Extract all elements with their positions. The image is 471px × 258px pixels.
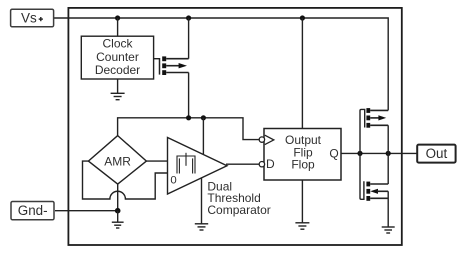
wire AMR bottom to ground node (117, 184, 119, 211)
wire comparator supply (202, 118, 204, 154)
svg-text:Q: Q (329, 147, 338, 161)
block Output Flip Flop (259, 129, 341, 181)
drain lead (top) (166, 58, 188, 60)
source lead (bottom) (370, 197, 388, 199)
ground below clock box (111, 79, 125, 100)
junction dot Q/gate bus (357, 151, 362, 156)
gate lead down from Q bus (360, 153, 364, 199)
source lead (bottom) (166, 72, 188, 74)
wire flip-flop supply from rail (301, 18, 303, 129)
svg-text:AMR: AMR (104, 154, 131, 168)
channel segments (366, 108, 370, 128)
junction dot rail/clock box (115, 15, 120, 20)
wire M1 drain to rail (188, 18, 190, 59)
sensor bridge AMR (diamond) (88, 136, 146, 185)
svg-text:Clock: Clock (102, 37, 133, 51)
terminal box Vs+ (11, 9, 54, 27)
wire M3 source/body to ground (387, 191, 389, 227)
wire flip-flop to ground (301, 180, 303, 223)
junction dot internal rail/comparator supply (201, 115, 206, 120)
gate lead from clock box (154, 58, 160, 60)
svg-text:Out: Out (426, 146, 448, 161)
body arrow (middle) (166, 65, 180, 67)
dual-threshold glyph inside comparator (177, 153, 195, 174)
wire M1 source down to internal rail (188, 73, 190, 118)
wire Gnd- to bridge ground node (55, 210, 118, 212)
ground below flip-flop (295, 223, 309, 229)
svg-text:Flop: Flop (291, 158, 315, 172)
svg-text:Gnd-: Gnd- (18, 203, 48, 218)
svg-text:Comparator: Comparator (207, 203, 270, 217)
channel segments (366, 182, 370, 201)
drain lead (bottom) (370, 124, 388, 126)
svg-text:Counter: Counter (96, 50, 139, 64)
junction dot output node (386, 151, 391, 156)
svg-text:Decoder: Decoder (95, 63, 140, 77)
D input bubble (259, 162, 264, 167)
junction dot ground node (115, 208, 121, 214)
wire M3 drain to output node (387, 153, 389, 184)
wire M2 drain to output node (387, 125, 389, 153)
transistor M2 (upper output MOSFET) (360, 108, 388, 153)
gate bar (159, 58, 161, 75)
wire AMR right output to comparator + input (146, 160, 167, 162)
clock input chevron (265, 135, 274, 144)
transistor M1 (clocked supply MOSFET) (154, 18, 189, 118)
drain lead (top) (370, 183, 388, 185)
terminal box Gnd- (11, 202, 54, 220)
gate lead up from Q bus (360, 109, 365, 153)
body arrow (middle, pointing left) (370, 189, 378, 194)
wire Vs+ supply rail (54, 18, 388, 110)
ground below comparator (195, 178, 208, 230)
svg-text:D: D (266, 157, 275, 171)
wire comparator output to D input (226, 163, 260, 165)
label Dual Threshold Comparator (207, 179, 270, 217)
clock input bubble (259, 137, 264, 142)
junction dot internal rail/M1 source (186, 115, 191, 120)
junction dot rail/flip-flop supply (300, 15, 305, 20)
junction dot rail/M1 drain (186, 15, 191, 20)
ground below bridge node (112, 211, 124, 228)
wire AMR left output to comparator - input (with hop over bridge-bottom wire) (83, 161, 168, 199)
svg-text:Vs: Vs (21, 11, 37, 26)
wire Q output to Out pad (341, 152, 417, 154)
source lead (top) (370, 109, 388, 111)
terminal box Out (417, 145, 455, 163)
transistor M3 (lower output MOSFET) (360, 153, 388, 227)
IC boundary rectangle (68, 8, 401, 245)
body arrow (middle) (370, 117, 379, 119)
wire internal supply rail (AMR top to comparator/FF clock) (118, 118, 260, 140)
channel segments (162, 56, 166, 75)
wire rail to clock box (117, 18, 119, 36)
block Clock Counter Decoder (81, 36, 153, 79)
ground below M3 (382, 227, 395, 233)
comparator U1 (triangle) (168, 138, 228, 195)
svg-text:0: 0 (170, 175, 176, 187)
